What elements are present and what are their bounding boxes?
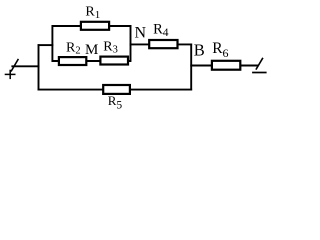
resistor R3 (100, 57, 128, 65)
wire: B vertical (190, 44, 192, 91)
resistor R6 (212, 61, 240, 70)
wire: bottom branch through R5 (38, 89, 193, 91)
svg-text:R6: R6 (212, 40, 228, 60)
resistor R2 (59, 57, 86, 65)
wire: node N to R4 to corner (130, 43, 193, 45)
wire: right rail of parallel section (130, 25, 132, 62)
right terminal slash (256, 58, 263, 70)
wire: node B to R6 to right terminal (190, 65, 258, 67)
resistor R5 (103, 85, 130, 94)
wire: left terminal lead (11, 65, 39, 67)
wire: R1 branch (52, 25, 132, 27)
minus polarity sign (252, 72, 267, 74)
resistor R4 (149, 40, 177, 48)
wire: main left vertical (38, 44, 40, 90)
svg-text:B: B (194, 41, 205, 60)
svg-text:R2: R2 (66, 40, 81, 56)
svg-text:N: N (135, 25, 147, 42)
wire: R2-R3 branch (52, 60, 132, 62)
svg-text:R1: R1 (85, 5, 100, 21)
svg-text:M: M (85, 42, 98, 58)
svg-text:R3: R3 (103, 39, 118, 55)
svg-text:R5: R5 (108, 93, 123, 112)
wire: left rail of parallel section (51, 25, 53, 62)
svg-text:R4: R4 (153, 22, 169, 39)
left terminal slash (11, 59, 18, 72)
plus polarity sign (5, 70, 16, 79)
wire: stub to parallel section (38, 44, 54, 46)
resistor R1 (81, 22, 109, 30)
